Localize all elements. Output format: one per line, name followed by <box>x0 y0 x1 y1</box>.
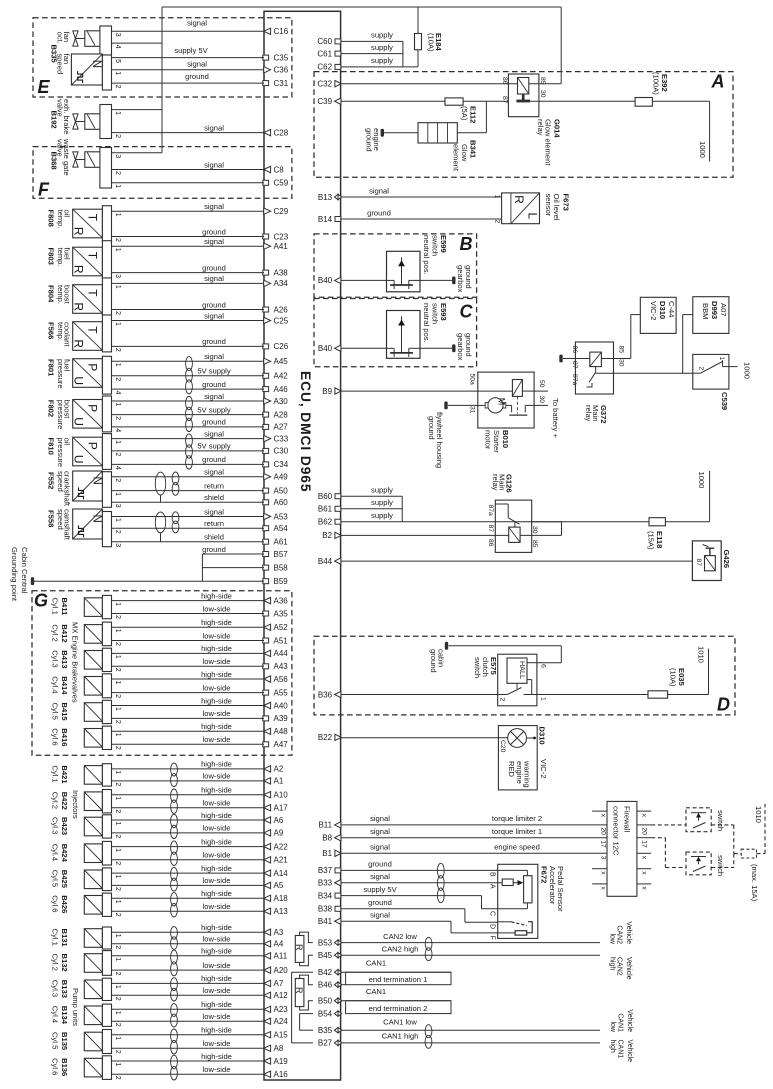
svg-text:1: 1 <box>493 195 500 199</box>
ground flywheel housing <box>444 402 478 410</box>
svg-text:A48: A48 <box>274 727 289 736</box>
wire B62 supply <box>341 511 495 522</box>
wire C61 supply <box>341 43 403 54</box>
label F673 Oil level sensor <box>544 194 571 221</box>
clutch switch E575 <box>498 654 547 706</box>
svg-text:C36: C36 <box>274 66 289 75</box>
svg-text:high: high <box>609 957 616 970</box>
pin A34 <box>264 279 289 288</box>
svg-text:87a: 87a <box>487 505 494 517</box>
svg-text:speed: speed <box>56 509 65 530</box>
svg-text:1: 1 <box>114 602 121 606</box>
svg-text:B45: B45 <box>318 951 333 960</box>
wire B44 to G426 <box>341 560 692 562</box>
wire B1 engine speed <box>341 843 607 854</box>
svg-text:B22: B22 <box>318 733 333 742</box>
svg-text:gearbox: gearbox <box>456 265 465 293</box>
svg-text:4: 4 <box>114 428 121 432</box>
label F804 <box>47 285 56 303</box>
valve B415 Cyl.5 <box>84 700 121 724</box>
pin A38 <box>263 268 288 277</box>
svg-text:1000: 1000 <box>743 362 752 379</box>
wire B424 pin2 low-side <box>112 851 265 860</box>
svg-text:(100A): (100A) <box>652 72 661 95</box>
svg-text:1: 1 <box>114 403 121 407</box>
fuse E392 (100A) <box>635 72 710 162</box>
svg-text:CAN2 low: CAN2 low <box>383 932 417 941</box>
wire G372 30 to C539 <box>614 372 693 374</box>
svg-text:B42: B42 <box>318 968 333 977</box>
group letter A <box>711 72 725 92</box>
svg-text:CAN1: CAN1 <box>617 1013 624 1032</box>
svg-text:A18: A18 <box>274 894 289 903</box>
wire B423 pin2 low-side <box>112 824 265 833</box>
svg-text:(max. 15A): (max. 15A) <box>750 864 759 902</box>
node 1000 battery feed in box A <box>698 141 707 158</box>
wire B38 ground to F672 pin D <box>341 898 498 922</box>
svg-text:2: 2 <box>114 1050 121 1054</box>
svg-text:(5A): (5A) <box>460 106 469 121</box>
dashed wire fuse to node 1010 <box>757 804 766 854</box>
pin A9 <box>264 829 284 838</box>
solenoid valve B335 fan oct. <box>73 26 121 55</box>
svg-text:x: x <box>600 814 607 818</box>
svg-text:C26: C26 <box>274 342 289 351</box>
valve B425 Cyl.5 <box>84 868 121 891</box>
pin A24 <box>264 1017 289 1026</box>
pin B41 <box>318 917 341 926</box>
fuse E118 (15A) <box>647 518 666 550</box>
svg-text:low-side: low-side <box>203 935 231 944</box>
label B134 Cyl.4 <box>51 1006 70 1025</box>
wire F552 pin3 shield <box>112 493 265 502</box>
svg-text:speed: speed <box>56 471 65 492</box>
wire C62 supply <box>341 56 418 67</box>
pin C28 <box>264 128 289 137</box>
svg-text:2: 2 <box>114 615 121 619</box>
svg-text:Cyl.6: Cyl.6 <box>51 728 60 745</box>
label F802 <box>47 400 56 417</box>
svg-text:1010: 1010 <box>754 806 763 823</box>
svg-text:ground: ground <box>202 337 226 346</box>
twisted pair B131 <box>171 927 178 950</box>
wire B192 pin2 signal to C28 <box>112 123 265 132</box>
ground gearbox at E593 <box>452 344 455 352</box>
svg-text:A24: A24 <box>274 1017 289 1026</box>
svg-text:Cyl.3: Cyl.3 <box>51 650 60 667</box>
dashed wire torque limiter 1 to switch 2 <box>651 838 686 868</box>
pin A15 <box>264 1031 289 1040</box>
pin C61 <box>317 49 340 58</box>
svg-text:end termination 1: end termination 1 <box>369 975 428 984</box>
svg-text:Cyl.6: Cyl.6 <box>51 895 60 912</box>
twisted pair F801 <box>186 357 193 394</box>
svg-text:supply: supply <box>371 31 393 40</box>
svg-text:86: 86 <box>501 77 508 85</box>
svg-text:1: 1 <box>114 248 121 252</box>
wire B425 pin2 low-side <box>112 876 265 885</box>
svg-text:ground: ground <box>365 128 374 152</box>
pin A21 <box>264 856 289 865</box>
svg-text:signal: signal <box>370 872 390 881</box>
svg-text:pressure: pressure <box>56 359 65 389</box>
svg-text:1: 1 <box>114 71 121 75</box>
label Vehicle CAN1 low <box>609 1009 633 1033</box>
svg-text:supply 5V: supply 5V <box>363 885 397 894</box>
wire B45 CAN2 high <box>341 944 600 955</box>
svg-text:F804: F804 <box>47 285 56 303</box>
svg-text:D993: D993 <box>710 301 719 319</box>
svg-text:B13: B13 <box>318 193 333 202</box>
svg-text:A8: A8 <box>274 1044 284 1053</box>
svg-text:F566: F566 <box>47 322 56 339</box>
label fuel pressure <box>56 359 72 389</box>
pin C62 <box>317 63 340 72</box>
svg-text:signal: signal <box>204 468 224 477</box>
label boost pressure <box>56 400 72 430</box>
dashed wire torque limiter 2 to switch <box>651 824 686 826</box>
svg-text:x: x <box>600 871 607 875</box>
wire cabin ground to E575 hall pin 6 <box>449 646 562 663</box>
svg-text:CAN1 high: CAN1 high <box>382 1031 419 1040</box>
svg-text:B50: B50 <box>318 997 333 1006</box>
wire F810 pin1 signal <box>112 429 265 438</box>
pin C34 <box>263 460 289 469</box>
svg-text:VIC-2: VIC-2 <box>649 301 658 320</box>
pin A42 <box>263 372 288 381</box>
svg-text:P: P <box>85 404 99 412</box>
svg-text:F: F <box>38 179 50 199</box>
svg-text:R: R <box>512 195 526 204</box>
label boost temp. <box>56 285 72 304</box>
svg-text:1: 1 <box>114 440 121 444</box>
svg-text:supply: supply <box>371 498 393 507</box>
wire to glow element B341 <box>457 101 486 133</box>
label F672 Accelerator Pedal Sensor <box>540 866 566 912</box>
wire F804 pin2 ground <box>112 300 265 309</box>
svg-text:C61: C61 <box>317 49 332 58</box>
svg-text:switch: switch <box>716 855 725 876</box>
svg-text:A39: A39 <box>274 714 289 723</box>
label G372 Main relay <box>584 405 608 424</box>
wire B136 pin2 low-side <box>112 1065 265 1074</box>
wire B414 pin2 low-side <box>112 683 265 692</box>
svg-text:87: 87 <box>501 96 508 104</box>
pin B53 <box>318 938 342 947</box>
svg-text:low-side: low-side <box>203 799 231 808</box>
pin A39 <box>263 714 288 723</box>
relay G014 glow element relay <box>501 74 561 117</box>
svg-text:A9: A9 <box>274 829 284 838</box>
svg-text:85: 85 <box>531 540 538 548</box>
wire B335 pin2 ground to C31 <box>112 72 265 83</box>
pin A36 <box>264 596 289 605</box>
svg-text:B133: B133 <box>60 980 69 998</box>
svg-text:supply 5V: supply 5V <box>174 46 208 55</box>
label fuel temp. <box>56 248 72 267</box>
svg-text:1: 1 <box>114 213 121 217</box>
svg-text:A45: A45 <box>274 357 289 366</box>
wire B34 supply 5V to F672 pin C <box>341 885 527 909</box>
svg-text:Vehicle: Vehicle <box>626 1040 633 1063</box>
svg-text:signal: signal <box>187 59 207 68</box>
svg-text:G: G <box>34 591 48 611</box>
pin B60 <box>318 492 341 501</box>
svg-text:low-side: low-side <box>203 631 231 640</box>
label B368 <box>50 152 59 170</box>
wire F808 pin1 signal <box>112 202 265 211</box>
valve B132 Cyl.2 <box>84 951 121 976</box>
svg-text:B413: B413 <box>60 650 69 668</box>
svg-text:low-side: low-side <box>203 961 231 970</box>
svg-text:A5: A5 <box>274 881 284 890</box>
svg-text:Cyl.4: Cyl.4 <box>51 1006 60 1023</box>
svg-text:Vehicle: Vehicle <box>625 957 632 980</box>
svg-text:1: 1 <box>114 733 121 737</box>
svg-text:2: 2 <box>114 1076 121 1080</box>
svg-text:B416: B416 <box>60 728 69 746</box>
svg-text:G014: G014 <box>553 119 562 138</box>
wire B335 pin3 signal to C16 <box>112 18 265 31</box>
svg-text:2: 2 <box>114 694 121 698</box>
pin B34 <box>318 891 341 900</box>
svg-text:RED: RED <box>507 761 516 778</box>
ground stub at G372 coil <box>559 355 562 363</box>
svg-text:signal: signal <box>204 352 224 361</box>
svg-text:B41: B41 <box>318 917 333 926</box>
pin C39 <box>317 97 340 106</box>
wire F566 pin2 ground <box>112 337 265 346</box>
svg-text:ground: ground <box>202 545 226 554</box>
ECU label ECU, DMCI D965 <box>298 371 313 492</box>
svg-text:ground: ground <box>202 263 226 272</box>
svg-text:B9: B9 <box>322 387 332 396</box>
svg-text:temp.: temp. <box>56 210 65 229</box>
svg-text:B53: B53 <box>318 938 333 947</box>
svg-text:4: 4 <box>114 391 121 395</box>
wire B416 pin1 high-side <box>112 722 265 731</box>
dashed group box G <box>32 591 292 756</box>
svg-text:85: 85 <box>539 77 546 85</box>
svg-text:5V supply: 5V supply <box>197 367 231 376</box>
svg-text:A44: A44 <box>274 649 289 658</box>
label G014 Glow element relay <box>536 119 562 166</box>
svg-text:return: return <box>204 481 224 490</box>
label fan speed <box>56 54 72 75</box>
svg-text:high-side: high-side <box>201 974 232 983</box>
svg-text:17: 17 <box>600 840 607 848</box>
svg-text:1: 1 <box>114 875 121 879</box>
pin C30 <box>263 447 289 456</box>
svg-text:A17: A17 <box>274 804 289 813</box>
label B426 Cyl.6 <box>51 895 70 913</box>
pin A23 <box>264 1005 289 1014</box>
label Pump units <box>71 988 80 1026</box>
svg-text:1: 1 <box>718 357 725 361</box>
switch C539 <box>693 354 729 389</box>
dashed wire switches to fuse <box>711 825 741 868</box>
svg-text:B132: B132 <box>60 954 69 972</box>
svg-text:signal: signal <box>204 237 224 246</box>
shield F552 <box>155 472 165 502</box>
svg-text:B422: B422 <box>60 792 69 810</box>
valve B426 Cyl.6 <box>84 893 121 917</box>
svg-text:1: 1 <box>114 934 121 938</box>
svg-text:signal: signal <box>370 843 390 852</box>
valve B414 Cyl.4 <box>84 674 121 698</box>
svg-text:1000: 1000 <box>698 141 707 158</box>
valve B421 Cyl.1 <box>84 764 121 787</box>
svg-text:1: 1 <box>114 848 121 852</box>
svg-text:2: 2 <box>114 746 121 750</box>
svg-text:Cyl.5: Cyl.5 <box>51 1032 60 1049</box>
twisted pair CAN2 <box>425 937 432 960</box>
svg-text:2: 2 <box>114 782 121 786</box>
svg-text:1: 1 <box>114 707 121 711</box>
wire B426 pin1 high-side <box>112 889 265 898</box>
temperature sensor F803 <box>72 241 121 278</box>
svg-text:F558: F558 <box>47 510 56 527</box>
svg-text:high-side: high-side <box>201 618 232 627</box>
wire B135 pin2 low-side <box>112 1039 265 1048</box>
relay G372 main relay <box>563 342 625 394</box>
svg-text:CAN1 low: CAN1 low <box>383 1017 417 1026</box>
svg-text:2: 2 <box>114 913 121 917</box>
wire B22 to warning lamp <box>341 737 508 739</box>
svg-text:F810: F810 <box>47 438 56 455</box>
svg-text:B426: B426 <box>60 895 69 913</box>
wire supply merge at G126 <box>401 496 403 522</box>
wire ground bus to grounding point <box>34 554 202 581</box>
svg-text:low-side: low-side <box>203 902 231 911</box>
pin A22 <box>264 842 289 851</box>
svg-text:CAN1: CAN1 <box>366 987 386 996</box>
pressure sensor F810 <box>72 434 121 470</box>
svg-text:F672: F672 <box>540 866 549 883</box>
svg-text:torque limiter 2: torque limiter 2 <box>492 814 542 823</box>
svg-text:Cyl.2: Cyl.2 <box>51 954 60 971</box>
wire B57 ground to cabin grounding point <box>202 545 264 554</box>
svg-text:A15: A15 <box>274 1031 289 1040</box>
solenoid valve B192 exh. brake valve <box>73 105 121 139</box>
ground cabin ground at E575 <box>445 642 448 650</box>
svg-text:5V supply: 5V supply <box>197 405 231 414</box>
svg-text:Cyl.1: Cyl.1 <box>51 765 60 782</box>
svg-text:2: 2 <box>114 861 121 865</box>
valve B412 Cyl.2 <box>84 622 121 646</box>
svg-text:B44: B44 <box>318 557 333 566</box>
svg-text:ground: ground <box>368 898 392 907</box>
svg-text:B35: B35 <box>318 1026 333 1035</box>
svg-text:B135: B135 <box>60 1032 69 1051</box>
pin A6 <box>264 816 284 825</box>
pin A10 <box>264 791 289 800</box>
pin B62 <box>318 518 341 527</box>
svg-text:valve: valve <box>56 99 65 117</box>
svg-text:Injectors: Injectors <box>71 790 80 819</box>
wire B33 signal to F672 pin A <box>341 872 505 883</box>
label Vehicle CAN2 low <box>609 921 633 945</box>
svg-text:end termination 2: end termination 2 <box>369 1004 428 1013</box>
svg-text:warning: warning <box>523 760 532 788</box>
wire B13 signal to F673 <box>341 186 502 197</box>
svg-text:low-side: low-side <box>203 1012 231 1021</box>
svg-text:2: 2 <box>114 1023 121 1027</box>
svg-text:1: 1 <box>114 796 121 800</box>
valve B411 Cyl.1 <box>84 595 121 619</box>
svg-text:1: 1 <box>114 1063 121 1067</box>
pin A54 <box>263 524 288 533</box>
svg-text:1000: 1000 <box>697 472 706 489</box>
termination box end termination 1 <box>346 972 451 985</box>
wire B424 pin1 high-side <box>112 837 265 846</box>
wire B416 pin2 low-side <box>112 735 265 744</box>
svg-text:86: 86 <box>571 346 578 354</box>
svg-text:B423: B423 <box>60 817 69 835</box>
svg-text:CAN2 high: CAN2 high <box>382 944 419 953</box>
pin B54 <box>318 1009 342 1018</box>
pin A7 <box>264 979 284 988</box>
svg-text:B010: B010 <box>501 430 510 448</box>
svg-text:4: 4 <box>114 45 121 49</box>
svg-text:B415: B415 <box>60 703 69 722</box>
svg-text:2: 2 <box>114 834 121 838</box>
svg-text:Firewall: Firewall <box>623 806 632 832</box>
wire B413 pin2 low-side <box>112 657 265 666</box>
svg-text:A61: A61 <box>274 538 289 547</box>
svg-text:2: 2 <box>499 698 506 702</box>
svg-text:A41: A41 <box>274 242 289 251</box>
fuse E112 (5A) <box>445 98 478 123</box>
svg-text:signal: signal <box>204 202 224 211</box>
svg-text:ground: ground <box>202 418 226 427</box>
accelerator pedal sensor F672 <box>489 864 538 939</box>
pin B8 <box>322 834 341 843</box>
svg-text:B: B <box>489 872 496 877</box>
svg-text:1: 1 <box>114 681 121 685</box>
wire F558 pin2 return <box>112 519 265 528</box>
svg-text:signal: signal <box>204 274 224 283</box>
label B335 <box>50 45 59 64</box>
svg-text:T: T <box>85 214 99 222</box>
svg-text:Vehicle: Vehicle <box>626 1009 633 1032</box>
svg-text:2: 2 <box>698 367 705 371</box>
wire B35 CAN1 low <box>341 1017 600 1030</box>
label engine ground <box>365 128 382 152</box>
svg-text:1: 1 <box>114 900 121 904</box>
label B192 <box>50 111 59 129</box>
svg-text:A: A <box>489 884 496 889</box>
wire F802 pin4 ground <box>112 418 265 427</box>
label exh. brake valve <box>56 99 72 134</box>
svg-text:G426: G426 <box>722 550 731 569</box>
svg-text:2: 2 <box>114 720 121 724</box>
svg-text:oct.: oct. <box>56 32 65 44</box>
svg-text:A21: A21 <box>274 856 289 865</box>
svg-text:high-side: high-side <box>201 864 232 873</box>
valve B136 Cyl.6 <box>84 1056 121 1080</box>
svg-text:Cabin Central: Cabin Central <box>20 547 29 594</box>
pin C31 <box>263 79 289 88</box>
label ground gearbox C <box>456 333 473 361</box>
label E575 clutch switch <box>473 657 498 678</box>
svg-text:C32: C32 <box>317 80 332 89</box>
svg-text:R: R <box>72 302 86 311</box>
svg-text:B36: B36 <box>318 690 333 699</box>
glow element B341 <box>384 123 457 143</box>
svg-text:ground: ground <box>185 72 209 81</box>
wire F558 pin3 shield <box>112 533 265 542</box>
